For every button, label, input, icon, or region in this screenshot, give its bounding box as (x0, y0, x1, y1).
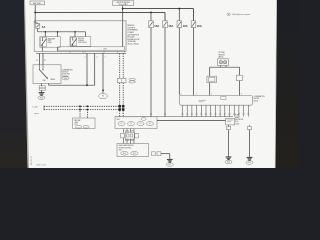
wire IPDM output 3 (102, 53, 104, 90)
wire IPDM to lighting switch pin 36 (39, 53, 41, 64)
wire fuse F1 output (150, 28, 152, 117)
combination switch S2 (lighting switch) (33, 65, 61, 84)
right dark band (photo edge) (275, 0, 300, 168)
wire cluster to lamp unit (124, 138, 135, 144)
wire fuse F3 output (178, 28, 180, 96)
label CAN connector refs (129, 78, 136, 83)
wire fuse F1 feed (150, 12, 152, 20)
ignition switch S1 (113, 1, 134, 6)
IPDM connector pin row (36, 51, 126, 53)
label meter pin numbers (181, 94, 243, 96)
label high beam indicator (235, 115, 244, 126)
wire fuse F3 feed (178, 9, 180, 21)
wire BCM to joint connector cluster (124, 129, 135, 133)
connector ovals B18 B19 (121, 152, 138, 156)
left dark band (photo edge) (0, 0, 29, 168)
node fuse F1 tap (150, 11, 152, 13)
wire sensor to meter right (239, 81, 241, 96)
meter pins (182, 105, 249, 116)
joint connector cluster (121, 131, 139, 141)
node relay R2 coil tap (74, 31, 76, 33)
label optical sensor (218, 51, 225, 58)
fuse F4 10A (191, 21, 202, 28)
wire lamp unit to ground (161, 154, 170, 159)
fuse 4A (36, 24, 46, 29)
wire BCM to meter branch with connectors D1 D2 (157, 119, 226, 121)
fuse F3 10A (177, 21, 188, 28)
connector ovals in BCM (118, 122, 154, 126)
lights-on unit box (226, 118, 235, 125)
connector M6 oval (99, 90, 108, 99)
label wire terminal marks below IPDM (84, 57, 106, 59)
wire fuse F2 feed (0, 0, 1, 1)
DTRL control unit box (73, 118, 95, 129)
CPU bar (58, 47, 125, 51)
connector sensor left (207, 76, 217, 82)
combination meter box U3 (180, 96, 253, 106)
wire IPDM output 1 (86, 53, 88, 85)
node fuse F3 tap (178, 8, 180, 10)
node CAN taps to DTRL unit (79, 106, 88, 111)
ground E38 (38, 90, 45, 99)
wire to ground B (249, 130, 251, 157)
node relay R1 coil tap (45, 31, 59, 33)
node output 3 junction (102, 89, 104, 91)
wire meter output B (249, 125, 251, 127)
optical sensor U2 (218, 59, 229, 66)
ground E22 (166, 158, 173, 166)
page noise overlay (24, 0, 277, 168)
wire F1 F2 terminal ends (150, 113, 165, 115)
annotation with lights-on system (227, 13, 251, 16)
wire relay outputs (42, 46, 85, 51)
wire IPDM output 2 (94, 53, 96, 85)
label terminal numbers (36, 60, 46, 62)
connector M28 (62, 77, 69, 80)
page background (0, 0, 300, 168)
label IPDM E/R (127, 25, 140, 46)
connector inline stack (39, 86, 45, 90)
wire CAN pair vertical lower (120, 83, 124, 117)
wire sensor to meter left (209, 83, 211, 96)
label combination meter (254, 95, 265, 102)
BCM box (115, 117, 157, 129)
connector CAN inline (117, 79, 126, 83)
wire IPDM to lighting switch pin 35 (42, 53, 44, 64)
switch lever (40, 70, 48, 78)
wire 4A fuse output bus (38, 28, 86, 36)
label page footer vertical (30, 156, 33, 165)
wire fuse F4 output (193, 28, 195, 96)
wire sensor terminals (221, 66, 227, 68)
wire CAN pair vertical from IPDM (120, 53, 124, 78)
relay R2 daytime running light (70, 37, 91, 47)
connector inline A (226, 126, 230, 129)
wire switch to ground (41, 84, 43, 86)
wire switch output L-path (49, 84, 95, 86)
relay R1 headlamp high (40, 37, 61, 48)
connector inline B (247, 126, 251, 129)
connector right of lamp unit (152, 152, 161, 156)
connector oval M inside BCM (141, 118, 146, 121)
ground E50 (246, 156, 253, 164)
label To CAN system (32, 106, 39, 116)
label footer model year (36, 164, 46, 166)
wire to ground A (228, 130, 230, 156)
fuse F2 15A (163, 21, 174, 28)
wire ignition drop into IPDM (122, 5, 124, 46)
label terminal refs near CAN (117, 113, 124, 115)
wire collector line below meter pins (115, 116, 233, 118)
wire meter output A through unit (228, 125, 230, 127)
wire sensor loop (210, 67, 240, 76)
wire CAN pair horizontal (44, 105, 123, 110)
wire battery drop to 4A fuse (35, 5, 38, 24)
label combination switch (62, 68, 73, 78)
wire CAN drops to DTRL unit (80, 106, 88, 118)
node L-path junction (86, 84, 88, 86)
switch contacts (39, 65, 44, 71)
lamp and rain sensor control unit box (117, 144, 149, 157)
node CAN junctions (118, 105, 124, 111)
label switch positions (43, 78, 56, 82)
meter internal glyph (199, 100, 207, 102)
battery B1 (30, 1, 45, 5)
IPDM E/R box U1 (34, 21, 126, 52)
fuse F1 15A (149, 21, 160, 28)
connector sensor right (237, 75, 243, 80)
wire fuse F2 output (164, 28, 166, 117)
wire ignition bus (123, 9, 194, 21)
label connector pin marks right area (218, 77, 245, 80)
node battery junction (34, 11, 36, 13)
node ignition junction (122, 8, 124, 10)
wire battery bus (35, 12, 165, 20)
ground E21 (225, 156, 232, 164)
